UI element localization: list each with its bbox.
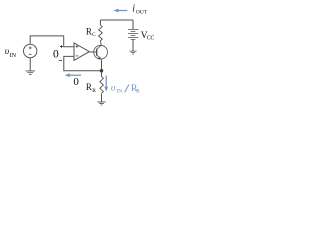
op-amp U1 xyxy=(74,43,89,60)
vIN plus mark xyxy=(29,47,32,50)
wire emitter down to node xyxy=(101,60,103,71)
wire vin bottom to ground xyxy=(29,58,31,71)
node emitter junction xyxy=(100,69,104,73)
arrow emitter current (blue, pointing down) xyxy=(104,76,108,92)
wire top rail xyxy=(100,19,133,21)
resistor RR xyxy=(100,77,104,94)
minus mark below zero xyxy=(59,59,62,61)
svg-text:OUT: OUT xyxy=(136,9,148,15)
arrow zero current into minus input (blue, pointing left) xyxy=(65,73,81,77)
transistor emitter arrowhead xyxy=(98,56,101,59)
op-amp plus input mark xyxy=(76,45,79,48)
wire collector up to resistor RC xyxy=(99,20,101,25)
wire battery bottom lead xyxy=(132,40,134,52)
svg-text:R: R xyxy=(136,89,140,95)
transistor Q1 xyxy=(94,45,108,60)
svg-text:υ: υ xyxy=(111,84,116,94)
resistor RC xyxy=(99,25,103,45)
wire opamp minus input feedback xyxy=(64,56,102,70)
arrow iOUT (blue, pointing left) xyxy=(114,9,128,13)
wire battery top lead xyxy=(132,20,134,29)
svg-text:0: 0 xyxy=(53,49,59,61)
ground under VCC xyxy=(129,51,136,54)
svg-text:i: i xyxy=(132,4,135,15)
voltage source vIN xyxy=(24,44,37,57)
op-amp minus input mark xyxy=(76,55,79,57)
svg-text:R: R xyxy=(86,26,92,36)
vIN minus mark xyxy=(29,53,32,55)
svg-text:0: 0 xyxy=(73,76,79,88)
battery VCC xyxy=(128,30,138,40)
svg-text:CC: CC xyxy=(147,36,155,42)
wire resistor RR to ground xyxy=(101,94,103,102)
wire opamp output to base xyxy=(89,51,96,53)
svg-text:IN: IN xyxy=(116,88,122,94)
ground under RR xyxy=(97,102,105,105)
svg-text:C: C xyxy=(92,32,96,38)
svg-text:υ: υ xyxy=(5,46,9,56)
plus mark above zero xyxy=(60,45,63,48)
svg-text:R: R xyxy=(86,82,92,92)
wire node to resistor RR xyxy=(101,71,103,77)
svg-text:R: R xyxy=(92,88,96,94)
wire vin top to opamp plus input xyxy=(30,36,74,47)
svg-text:IN: IN xyxy=(10,53,17,59)
ground under vIN xyxy=(26,71,35,75)
